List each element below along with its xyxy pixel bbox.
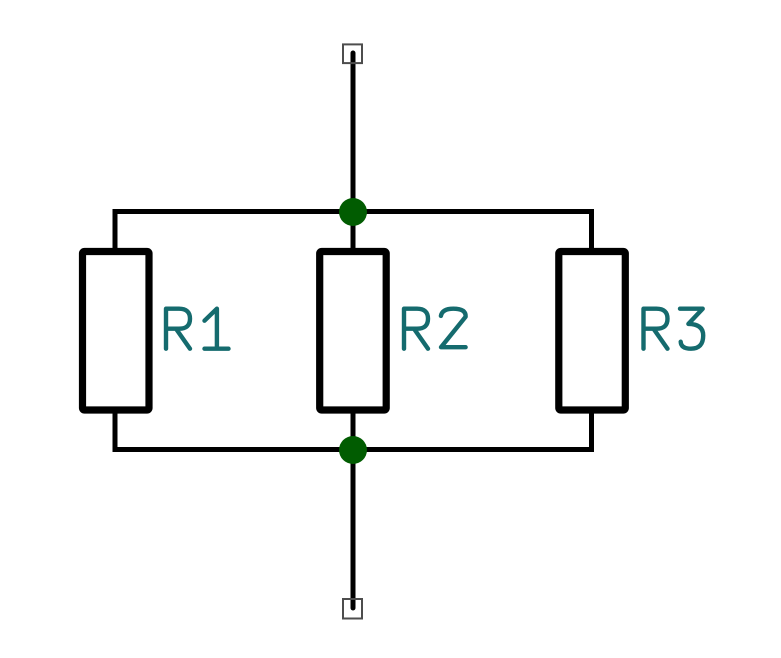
label R1 [166, 309, 229, 349]
node A junction dot [339, 198, 367, 226]
wire: R2 bottom through node B down to bottom terminal [351, 408, 356, 608]
label R2 [404, 309, 466, 349]
label R3 [644, 309, 704, 349]
wire: top pin lead from terminal into node A [351, 53, 356, 212]
resistor R2 body [320, 252, 387, 411]
resistor R3 body [559, 252, 626, 411]
resistor R1 body [83, 252, 150, 411]
bottom terminal pin square [343, 599, 362, 619]
wire: bottom bus rail with corner rises from R1 and R3 [115, 407, 592, 450]
top terminal pin square [343, 44, 362, 63]
wire: node A down to R2 top [351, 210, 356, 252]
node B junction dot [339, 436, 367, 464]
wire: top bus rail with corner drops to R1 and R3 [115, 212, 592, 254]
